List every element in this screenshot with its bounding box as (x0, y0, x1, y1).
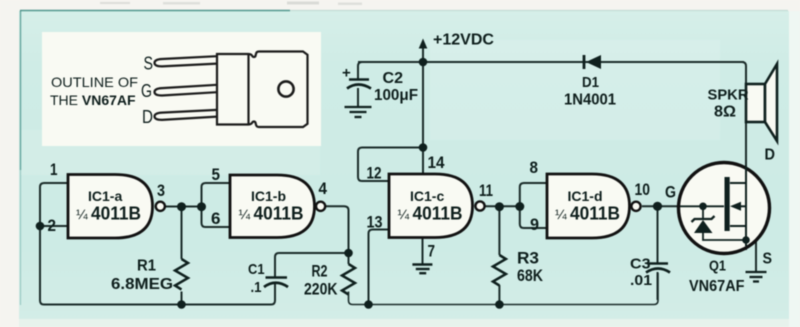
wire: pin 2 input (40, 225, 68, 227)
resistor R1 (111, 258, 188, 294)
wire: C2 to ground (357, 88, 359, 107)
svg-text:11: 11 (479, 181, 493, 200)
capacitor C1 (248, 261, 288, 296)
svg-text:14: 14 (428, 153, 445, 172)
ground under C2 (345, 107, 372, 117)
svg-text:G: G (665, 184, 676, 202)
svg-text:C1: C1 (248, 261, 265, 278)
svg-text:D: D (765, 147, 776, 164)
svg-text:4011B: 4011B (570, 204, 620, 224)
Q1 internal gate wire (680, 205, 724, 207)
svg-text:12: 12 (367, 164, 382, 183)
svg-text:IC1-c: IC1-c (410, 188, 444, 204)
package body/tab junction line (247, 54, 249, 125)
svg-text:100μF: 100μF (374, 87, 418, 104)
node: +12V rail dot (419, 58, 428, 67)
svg-text:9: 9 (530, 215, 539, 234)
node: R3 top dot (495, 202, 504, 211)
wire: pin 1 input (40, 183, 68, 226)
wire: split to pins 8 and 9 (520, 183, 547, 228)
svg-text:¼: ¼ (398, 206, 410, 222)
svg-text:6.8MEG: 6.8MEG (111, 276, 173, 293)
wire: branch to pin 12 (358, 148, 423, 182)
node: pin14/pin12 branch dot (419, 143, 428, 152)
node: C3 top dot (653, 202, 662, 211)
node: pins 8/9 split dot (515, 202, 524, 211)
svg-text:IC1-a: IC1-a (88, 188, 122, 204)
ground under pin 7 (412, 265, 432, 274)
wire: R3 bottom lead (498, 285, 500, 305)
node: R1 top dot (177, 202, 186, 211)
svg-text:6: 6 (211, 209, 221, 228)
wire: gate B output to R2 node (326, 206, 349, 253)
svg-text:R1: R1 (137, 258, 156, 275)
svg-text:C2: C2 (383, 70, 404, 87)
wire: +12VDC arrow stem and vertical to pin 14 (422, 46, 424, 174)
svg-text:R2: R2 (312, 263, 328, 281)
capacitor C3 (630, 256, 670, 290)
svg-text:4: 4 (319, 179, 328, 198)
svg-text:5: 5 (212, 165, 221, 184)
Q1 internal drain-source line (745, 166, 747, 246)
svg-text:8Ω: 8Ω (714, 104, 736, 121)
capacitor C2 (342, 65, 418, 105)
svg-text:2: 2 (48, 216, 57, 235)
wire: speaker/drain vertical (742, 62, 746, 250)
svg-text:¼: ¼ (555, 206, 567, 222)
node: R3 bottom dot (495, 300, 504, 309)
speaker SPKR 8ohm (708, 64, 778, 141)
svg-text:OUTLINE OF: OUTLINE OF (51, 74, 138, 90)
resistor R2 (304, 263, 355, 299)
svg-text:13: 13 (367, 213, 383, 232)
svg-text:¼: ¼ (239, 206, 251, 222)
inset: outline of the VN67AF package (42, 32, 321, 146)
svg-text:IC1-d: IC1-d (568, 188, 603, 204)
package outline TO-220 (217, 52, 308, 128)
svg-text:S: S (144, 54, 154, 74)
svg-text:4011B: 4011B (413, 204, 463, 224)
wire: C2 drop from rail (358, 62, 362, 79)
wire: split to pins 5 and 6 (202, 183, 231, 227)
svg-text:+12VDC: +12VDC (433, 32, 494, 49)
package lead D (155, 110, 218, 120)
svg-text:1N4001: 1N4001 (564, 92, 616, 109)
NAND gate IC1-d (547, 174, 641, 238)
Q1 gate bar (725, 177, 730, 231)
diode D1 (564, 55, 616, 109)
wire: left vertical down to rail1 (40, 226, 275, 305)
+12VDC arrow (419, 32, 494, 49)
wire: R3 branch vertical (498, 207, 500, 256)
svg-text:.1: .1 (251, 279, 262, 296)
wire: S lead to ground (755, 240, 757, 272)
package lead S (155, 56, 218, 66)
wire: R2 bottom lead and rail2 (349, 273, 659, 305)
wire: C1 top link to pin4 node (275, 253, 349, 278)
wire: gate D output row to gate G (642, 205, 680, 207)
svg-text:4011B: 4011B (254, 204, 304, 224)
wire: gate C output row (486, 205, 520, 207)
svg-text:10: 10 (635, 180, 651, 199)
node: pin 2 dot (36, 222, 45, 231)
svg-text:C3: C3 (630, 256, 651, 273)
wire: pin 13 link (369, 230, 390, 305)
svg-text:8: 8 (530, 158, 539, 177)
Q1 gate-protection zener (702, 206, 704, 219)
wire: +12V top rail (358, 61, 744, 63)
svg-text:IC1-b: IC1-b (251, 188, 286, 204)
mounting hole (278, 81, 293, 96)
svg-text:68K: 68K (517, 267, 543, 285)
svg-text:G: G (141, 81, 152, 101)
svg-text:VN67AF: VN67AF (689, 278, 745, 295)
NAND gate IC1-a (68, 175, 165, 239)
node: pin13/rail2 dot (364, 300, 373, 309)
Q1 zener junction dot (699, 203, 707, 211)
Q1 body stub with arrow (730, 202, 741, 211)
transistor Q1 (VMOS) (679, 163, 770, 254)
svg-text:D: D (142, 107, 153, 127)
wire: C3 drop (657, 206, 659, 264)
svg-text:THE VN67AF: THE VN67AF (50, 92, 136, 108)
node: R1 bottom dot (177, 300, 186, 309)
wire: C3 bottom lead (657, 272, 659, 300)
wire: R1 branch vertical (181, 207, 183, 260)
wire: R2 top lead (348, 253, 350, 264)
wire: pin 7 to ground (422, 238, 424, 264)
package lead G (155, 85, 218, 96)
svg-text:4011B: 4011B (91, 204, 141, 224)
node: pins 5/6 split dot (197, 202, 206, 211)
ground under source (746, 272, 767, 282)
svg-text:¼: ¼ (76, 206, 88, 222)
svg-text:1: 1 (50, 160, 58, 179)
NAND gate IC1-b (230, 175, 325, 238)
svg-text:7: 7 (428, 242, 436, 261)
svg-text:3: 3 (157, 181, 165, 200)
node: R2 top dot (344, 249, 353, 258)
Q1 drain stub (730, 182, 746, 184)
svg-text:Q1: Q1 (709, 258, 726, 275)
svg-text:R3: R3 (517, 250, 539, 268)
svg-text:S: S (763, 251, 773, 268)
svg-text:SPKR: SPKR (708, 87, 749, 104)
Q1 source stub (730, 225, 746, 227)
svg-text:+: + (342, 65, 351, 82)
NAND gate IC1-c (389, 174, 485, 238)
wire: R1 bottom lead (181, 292, 183, 305)
wire: gate A output row (166, 206, 202, 208)
svg-text:220K: 220K (304, 281, 338, 299)
svg-text:.01: .01 (630, 272, 652, 289)
svg-text:D1: D1 (582, 74, 599, 91)
resistor R3 (493, 250, 543, 286)
